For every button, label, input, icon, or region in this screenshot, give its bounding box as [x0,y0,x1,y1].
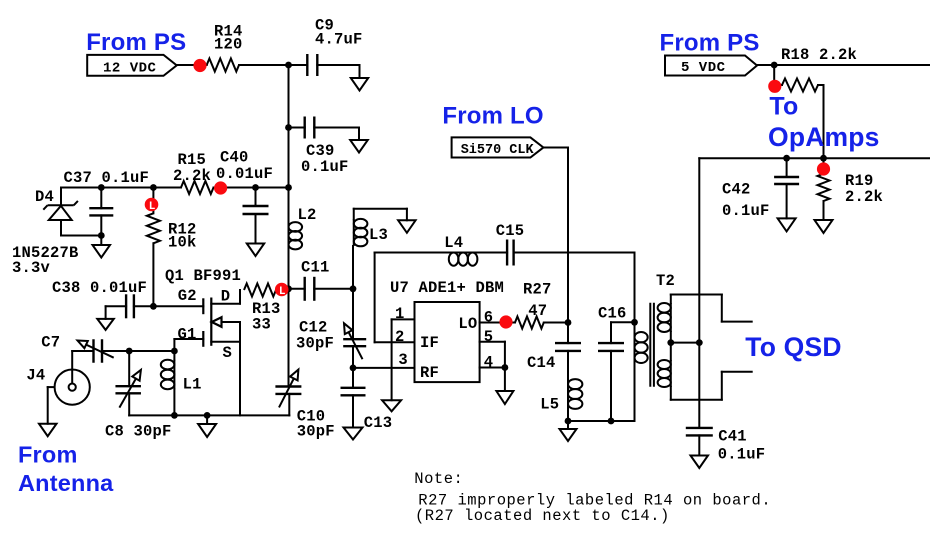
svg-text:120: 120 [214,36,243,54]
svg-text:30pF: 30pF [296,335,334,353]
svg-text:R18 2.2k: R18 2.2k [781,46,857,64]
svg-text:C13: C13 [364,414,393,432]
svg-text:S: S [223,344,233,362]
svg-text:33: 33 [252,316,271,334]
svg-text:U7 ADE1+ DBM: U7 ADE1+ DBM [390,279,504,297]
svg-text:2.2k: 2.2k [173,167,211,185]
svg-text:From LO: From LO [442,103,543,130]
svg-text:To: To [769,93,798,121]
svg-text:R27: R27 [523,281,552,299]
svg-text:47: 47 [528,302,547,320]
svg-text:C7: C7 [41,334,60,352]
svg-text:C42: C42 [722,181,751,199]
svg-text:Note:: Note: [414,470,463,488]
svg-text:RF: RF [420,364,439,382]
svg-text:(R27 located next to C14.): (R27 located next to C14.) [415,507,670,525]
svg-text:J4: J4 [26,367,45,385]
svg-text:10k: 10k [168,234,197,252]
svg-text:5 VDC: 5 VDC [681,60,726,76]
svg-text:D: D [221,288,231,306]
svg-text:T2: T2 [656,272,675,290]
svg-text:4.7uF: 4.7uF [315,31,363,49]
svg-text:L3: L3 [369,226,388,244]
svg-text:0.1uF: 0.1uF [718,446,766,464]
svg-text:0.01uF: 0.01uF [216,165,273,183]
svg-text:From: From [18,442,78,468]
svg-text:C11: C11 [301,259,330,277]
svg-text:6: 6 [484,309,494,327]
svg-text:Q1 BF991: Q1 BF991 [165,267,241,285]
svg-text:From PS: From PS [660,30,760,57]
svg-text:3.3v: 3.3v [12,259,51,277]
svg-text:L: L [279,286,286,298]
svg-text:C8 30pF: C8 30pF [105,423,172,441]
svg-text:L: L [149,201,156,213]
svg-text:3: 3 [398,351,408,369]
svg-text:4: 4 [484,354,494,372]
svg-text:C41: C41 [718,428,747,446]
svg-text:C40: C40 [220,149,249,167]
svg-text:C16: C16 [598,305,627,323]
svg-text:0.1uF: 0.1uF [301,158,349,176]
svg-text:30pF: 30pF [297,423,335,441]
svg-text:2: 2 [395,328,405,346]
svg-text:To QSD: To QSD [745,332,841,362]
svg-text:C15: C15 [496,222,525,240]
svg-text:L4: L4 [444,234,463,252]
svg-text:Si570 CLK: Si570 CLK [461,143,535,158]
svg-text:C38 0.01uF: C38 0.01uF [52,279,147,297]
svg-text:LO: LO [458,315,477,333]
svg-text:2.2k: 2.2k [845,188,883,206]
svg-text:G2: G2 [178,287,197,305]
svg-text:G1: G1 [178,326,197,344]
svg-text:C37 0.1uF: C37 0.1uF [64,169,150,187]
svg-text:OpAmps: OpAmps [768,122,880,152]
svg-text:IF: IF [420,334,439,352]
svg-text:C14: C14 [527,354,556,372]
svg-text:D4: D4 [35,188,54,206]
svg-text:Antenna: Antenna [18,470,114,496]
svg-text:From PS: From PS [86,29,186,56]
svg-text:L5: L5 [540,396,559,414]
svg-text:12 VDC: 12 VDC [103,61,157,77]
svg-text:1: 1 [395,305,405,323]
svg-text:5: 5 [484,328,494,346]
svg-text:L1: L1 [183,376,202,394]
svg-text:0.1uF: 0.1uF [722,202,770,220]
svg-text:L2: L2 [298,206,317,224]
